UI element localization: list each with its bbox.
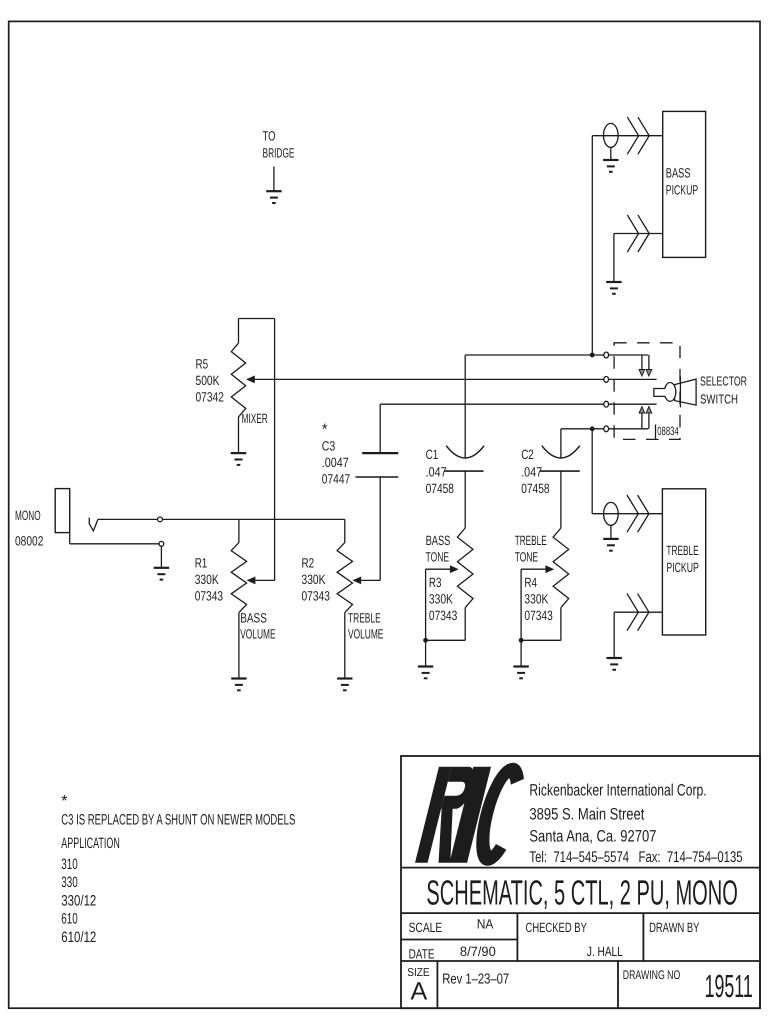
svg-text:TREBLE: TREBLE — [515, 533, 547, 548]
svg-text:330: 330 — [61, 874, 77, 891]
node: TO BRIDGE label — [263, 128, 295, 160]
svg-text:DRAWING NO: DRAWING NO — [623, 968, 681, 982]
label: TREBLE TONE — [515, 533, 547, 565]
R2 wiper arrow — [352, 577, 361, 585]
svg-text:07343: 07343 — [302, 589, 330, 604]
svg-text:.0047: .0047 — [322, 455, 349, 470]
svg-text:330K: 330K — [524, 592, 548, 607]
node: jack sleeve terminal — [159, 541, 164, 546]
ground (R3) — [418, 640, 433, 678]
capacitor C1 .047 — [445, 355, 485, 528]
jack tip contact — [89, 518, 98, 531]
svg-text:07342: 07342 — [196, 390, 224, 405]
svg-text:A: A — [411, 977, 428, 1005]
svg-text:TONE: TONE — [515, 549, 538, 564]
bass pickup P1 — [663, 111, 706, 257]
svg-text:.047: .047 — [426, 464, 447, 479]
svg-text:330K: 330K — [195, 572, 219, 587]
svg-text:*: * — [61, 793, 67, 810]
svg-text:07343: 07343 — [195, 589, 223, 604]
svg-text:BASS: BASS — [666, 165, 691, 180]
svg-text:APPLICATION: APPLICATION — [61, 835, 120, 852]
svg-text:07458: 07458 — [426, 481, 454, 496]
svg-text:610/12: 610/12 — [61, 929, 96, 946]
ground (R1) — [231, 679, 246, 691]
wire: jack tip to tip terminal — [98, 518, 158, 520]
selector switch S1 (dashed enclosure) — [614, 343, 680, 440]
svg-text:08002: 08002 — [15, 533, 43, 548]
junction: row 4 / treble hot — [590, 426, 595, 431]
ground (bridge) — [266, 167, 281, 204]
svg-text:R4: R4 — [524, 575, 537, 590]
svg-text:VOLUME: VOLUME — [348, 627, 383, 642]
label: R2 330K 07343 — [302, 556, 330, 604]
svg-text:Rev 1–23–07: Rev 1–23–07 — [442, 971, 509, 987]
svg-text:500K: 500K — [196, 373, 220, 388]
resistor R4 330K treble tone pot — [521, 528, 569, 640]
svg-text:BRIDGE: BRIDGE — [263, 146, 295, 161]
title block frame — [401, 756, 760, 1008]
connector: bass pickup hot lead (shielded) — [592, 117, 662, 154]
capacitor C2 .047 — [540, 429, 580, 528]
label: C2 .047 07458 — [521, 447, 549, 496]
ground (R4) — [513, 640, 528, 678]
svg-text:07458: 07458 — [521, 481, 549, 496]
wire: selector row 2 to mixer wiper — [255, 378, 604, 380]
label: switch part number 08834 — [656, 424, 679, 440]
svg-text:BASS: BASS — [240, 611, 267, 626]
svg-text:Rickenbacker International Cor: Rickenbacker International Corp. — [529, 782, 706, 800]
wire: selector row 1 to C1 — [465, 354, 604, 356]
svg-text:C2: C2 — [521, 447, 534, 462]
label: R1 330K 07343 — [195, 556, 223, 604]
label: MIXER — [242, 411, 268, 426]
label: BASS TONE — [426, 533, 451, 565]
svg-text:NA: NA — [477, 916, 494, 931]
node: selector terminal 3 — [604, 401, 609, 407]
svg-text:DATE: DATE — [409, 946, 435, 961]
ground (bass pickup return) — [606, 234, 621, 294]
svg-text:SWITCH: SWITCH — [700, 392, 738, 407]
svg-text:CHECKED BY: CHECKED BY — [526, 920, 587, 935]
svg-text:8/7/90: 8/7/90 — [460, 944, 496, 959]
node: selector terminal 4 — [604, 426, 609, 432]
label: C1 .047 07458 — [426, 447, 454, 496]
svg-text:07343: 07343 — [429, 608, 457, 623]
svg-text:R2: R2 — [302, 556, 315, 571]
svg-text:610: 610 — [61, 911, 77, 928]
svg-text:R3: R3 — [429, 575, 442, 590]
wire: selector row 4 down to treble pickup — [591, 429, 593, 514]
wire: jack sleeve — [70, 543, 159, 545]
wire: bass pickup hot down to selector row 1 — [591, 136, 593, 355]
label: R3 330K 07343 — [429, 575, 457, 623]
label: R5 500K 07342 — [196, 357, 224, 405]
wire: R5 top to R1 wiper — [255, 319, 274, 581]
connector: bass pickup ground lead — [614, 215, 663, 252]
svg-text:.047: .047 — [521, 464, 542, 479]
svg-text:*: * — [322, 421, 328, 438]
svg-text:07447: 07447 — [322, 472, 350, 487]
jack J1 MONO output — [55, 489, 69, 544]
svg-text:R5: R5 — [196, 357, 209, 372]
wire: R2 wiper to C3 — [361, 477, 380, 581]
svg-text:TREBLE: TREBLE — [666, 543, 698, 558]
ground (treble pickup return) — [607, 612, 622, 670]
junction: row 1 / bass hot — [590, 353, 595, 358]
node: jack tip terminal — [158, 517, 163, 522]
junction: R3 wiper to bottom — [423, 638, 428, 643]
svg-text:19511: 19511 — [705, 968, 753, 1004]
ground (bass pickup shield) — [603, 147, 618, 171]
R3 wiper arrow and wire — [426, 565, 459, 640]
R5 wiper arrow — [246, 376, 255, 384]
svg-text:C3: C3 — [322, 439, 336, 454]
resistor R1 330K bass volume pot — [231, 519, 246, 678]
svg-text:330K: 330K — [429, 592, 453, 607]
note: APPLICATION list — [61, 835, 120, 946]
R1 wiper arrow — [247, 577, 256, 585]
svg-text:MIXER: MIXER — [242, 411, 268, 426]
svg-text:Tel: 714–545–5574 Fax: 714: Tel: 714–545–5574 Fax: 714–754–0135 — [529, 849, 742, 866]
svg-text:SELECTOR: SELECTOR — [700, 374, 747, 389]
ground (treble pickup shield) — [603, 525, 618, 550]
node: selector terminal 1 — [604, 352, 609, 358]
note: C3 shunt remark — [61, 793, 295, 828]
capacitor C3 .0047 — [356, 453, 399, 477]
label: C3 .0047 07447 (asterisk) — [322, 421, 350, 487]
switch lever — [654, 376, 696, 407]
ground (R2) — [337, 679, 352, 691]
switch contact pair upper (row1 to row2) — [639, 355, 652, 376]
junction: R4 wiper to bottom — [519, 638, 524, 643]
svg-text:VOLUME: VOLUME — [240, 627, 275, 642]
node: selector terminal 2 — [604, 377, 609, 383]
ground (jack sleeve) — [154, 546, 169, 579]
label: SELECTOR SWITCH — [700, 374, 747, 407]
resistor R2 330K treble volume pot — [337, 519, 352, 678]
svg-text:TONE: TONE — [426, 549, 449, 564]
svg-text:DRAWN BY: DRAWN BY — [649, 920, 699, 935]
svg-text:310: 310 — [61, 856, 77, 873]
svg-text:C1: C1 — [426, 447, 439, 462]
R4 wiper arrow and wire — [521, 565, 554, 640]
label: BASS VOLUME — [240, 611, 275, 642]
wire: output bus jack tip to volume pots — [162, 518, 344, 520]
ground (R5) — [231, 453, 246, 465]
wire: selector row 4 to C2 — [561, 428, 604, 430]
svg-text:J. HALL: J. HALL — [587, 944, 623, 959]
svg-text:PICKUP: PICKUP — [666, 560, 698, 575]
svg-text:SCHEMATIC, 5 CTL, 2 PU, MONO: SCHEMATIC, 5 CTL, 2 PU, MONO — [426, 874, 737, 913]
svg-text:PICKUP: PICKUP — [666, 183, 698, 198]
treble pickup P2 — [662, 489, 705, 635]
svg-text:Santa Ana, Ca. 92707: Santa Ana, Ca. 92707 — [529, 827, 656, 845]
svg-text:07343: 07343 — [524, 608, 552, 623]
switch contact pair lower (row4 to row3) — [639, 407, 652, 429]
resistor R3 330K bass tone pot — [426, 528, 473, 640]
svg-text:SCALE: SCALE — [409, 920, 443, 935]
svg-text:BASS: BASS — [426, 533, 451, 548]
svg-text:3895 S. Main Street: 3895 S. Main Street — [529, 806, 644, 824]
resistor R5 500K mixer pot — [231, 319, 274, 453]
wire: selector row 3 to C3 — [380, 403, 604, 405]
label: TREBLE VOLUME — [348, 611, 383, 642]
svg-text:330K: 330K — [302, 572, 326, 587]
connector: treble pickup ground lead — [614, 594, 662, 631]
svg-text:330/12: 330/12 — [61, 892, 96, 909]
svg-text:C3 IS REPLACED BY A SHUNT ON N: C3 IS REPLACED BY A SHUNT ON NEWER MODEL… — [61, 811, 295, 828]
connector: treble pickup hot lead (shielded) — [592, 495, 662, 532]
svg-text:TO: TO — [263, 128, 276, 143]
svg-text:TREBLE: TREBLE — [348, 611, 381, 626]
logo RIC — [415, 767, 521, 863]
svg-text:MONO: MONO — [15, 508, 41, 523]
label: MONO 08002 — [15, 508, 43, 549]
svg-text:R1: R1 — [195, 556, 208, 571]
label: R4 330K 07343 — [524, 575, 552, 623]
svg-text:08834: 08834 — [657, 424, 679, 438]
